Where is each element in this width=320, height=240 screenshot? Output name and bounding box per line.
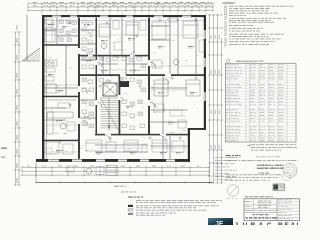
svg-text:R: R	[278, 222, 283, 225]
terrace left edge	[35, 162, 37, 182]
svg-text:SCHVÁLENO St.ú.1 OBVODU: SCHVÁLENO St.ú.1 OBVODU	[257, 164, 284, 167]
right middle rooms furniture	[154, 80, 200, 128]
core door arcs	[89, 51, 155, 107]
balcony line left	[26, 15, 28, 61]
JURAC REAL watermark	[235, 222, 301, 229]
door openings	[78, 48, 171, 136]
beds upper right rooms	[152, 18, 205, 68]
inner face line below top wall	[44, 20, 204, 22]
top dimension chains	[27, 2, 214, 15]
elevator shaft	[103, 83, 117, 96]
small text under approval	[226, 174, 282, 180]
right dimension chains	[208, 14, 223, 184]
bottom-right rooms furniture	[152, 140, 184, 152]
left margin marks	[1, 148, 7, 158]
internal wall horizontal y45 left	[44, 44, 78, 46]
legend block	[128, 197, 222, 216]
approval text block	[226, 144, 298, 161]
dining table left	[45, 84, 59, 93]
axis circles top	[96, 2, 160, 8]
internal wall horizontal y96 left	[44, 96, 78, 98]
round official stamps	[282, 164, 297, 181]
svg-text:E: E	[285, 222, 290, 225]
room number labels	[48, 24, 197, 154]
ground line with ticks	[36, 181, 212, 187]
svg-text:J: J	[235, 222, 239, 225]
left dimension chain	[14, 25, 22, 186]
door swing arcs main	[82, 50, 169, 142]
svg-text:JF: JF	[215, 221, 224, 225]
left wall hatch line	[45, 15, 47, 162]
bedroom top-left	[45, 19, 55, 42]
svg-text:L: L	[297, 222, 301, 225]
bottom dimension chains	[21, 166, 210, 177]
bathroom fixtures top-left	[59, 20, 76, 41]
warning line above legend	[121, 191, 125, 194]
windows right wall	[204, 30, 206, 101]
jog wall horizontal	[188, 128, 206, 130]
interior dimension lines	[45, 19, 202, 153]
outer wall left	[42, 15, 44, 162]
windows bottom wall	[48, 159, 175, 162]
svg-text:C: C	[267, 222, 272, 225]
svg-text:A: A	[291, 222, 296, 225]
title block header line	[245, 195, 249, 198]
outer wall bottom band	[36, 159, 190, 162]
thin partitions	[45, 18, 196, 159]
svg-text:MAGISTRÁTU MĚSTA PLZNĚ: MAGISTRÁTU MĚSTA PLZNĚ	[257, 167, 284, 170]
misc small annotation marks in plan	[49, 19, 197, 154]
svg-text:U: U	[243, 222, 248, 225]
SCHVALENO stamp text	[257, 164, 284, 170]
title block	[244, 199, 300, 221]
internal wall horizontal y135	[95, 134, 188, 136]
internal wall horizontal y55 core	[80, 55, 148, 57]
entrance ramp diagonals	[22, 48, 40, 61]
svg-text:17.04. fml: 17.04. fml	[258, 172, 269, 175]
living room sofa left	[47, 100, 76, 134]
small notes column	[215, 157, 237, 180]
bottom-left rooms furniture	[46, 142, 73, 154]
room 80-95 fixtures	[82, 20, 92, 52]
windows top wall	[52, 15, 191, 17]
crossed circle symbol	[226, 185, 239, 199]
internal wall horizontal y75	[80, 74, 204, 76]
kitchen left flat	[45, 60, 57, 81]
outer wall top	[42, 15, 206, 17]
certification badge	[273, 184, 285, 190]
rooms 95-148 top furniture	[99, 20, 146, 50]
internal wall vertical x148	[148, 18, 150, 135]
terrace furniture	[66, 166, 118, 176]
svg-text:TABULKA MÍSTNOSTÍ 2.NP: TABULKA MÍSTNOSTÍ 2.NP	[236, 60, 264, 63]
internal wall vertical x78	[78, 18, 80, 159]
outer wall right lower jog	[188, 128, 190, 162]
JF logo square	[208, 218, 233, 228]
core bathroom cluster	[82, 57, 146, 129]
staircase flights	[101, 98, 119, 130]
bottom-middle rooms furniture	[86, 140, 147, 152]
dark shaft block	[120, 81, 130, 87]
room schedule table	[226, 59, 297, 142]
outer wall right upper	[204, 15, 206, 130]
svg-text:R: R	[251, 222, 256, 225]
internal wall horizontal y140 left	[44, 140, 78, 142]
internal core walls vertical	[96, 18, 121, 135]
svg-text:POZNÁMKY:: POZNÁMKY:	[223, 2, 237, 5]
notes list POZNAMKY	[223, 2, 294, 46]
svg-text:A: A	[259, 222, 264, 225]
